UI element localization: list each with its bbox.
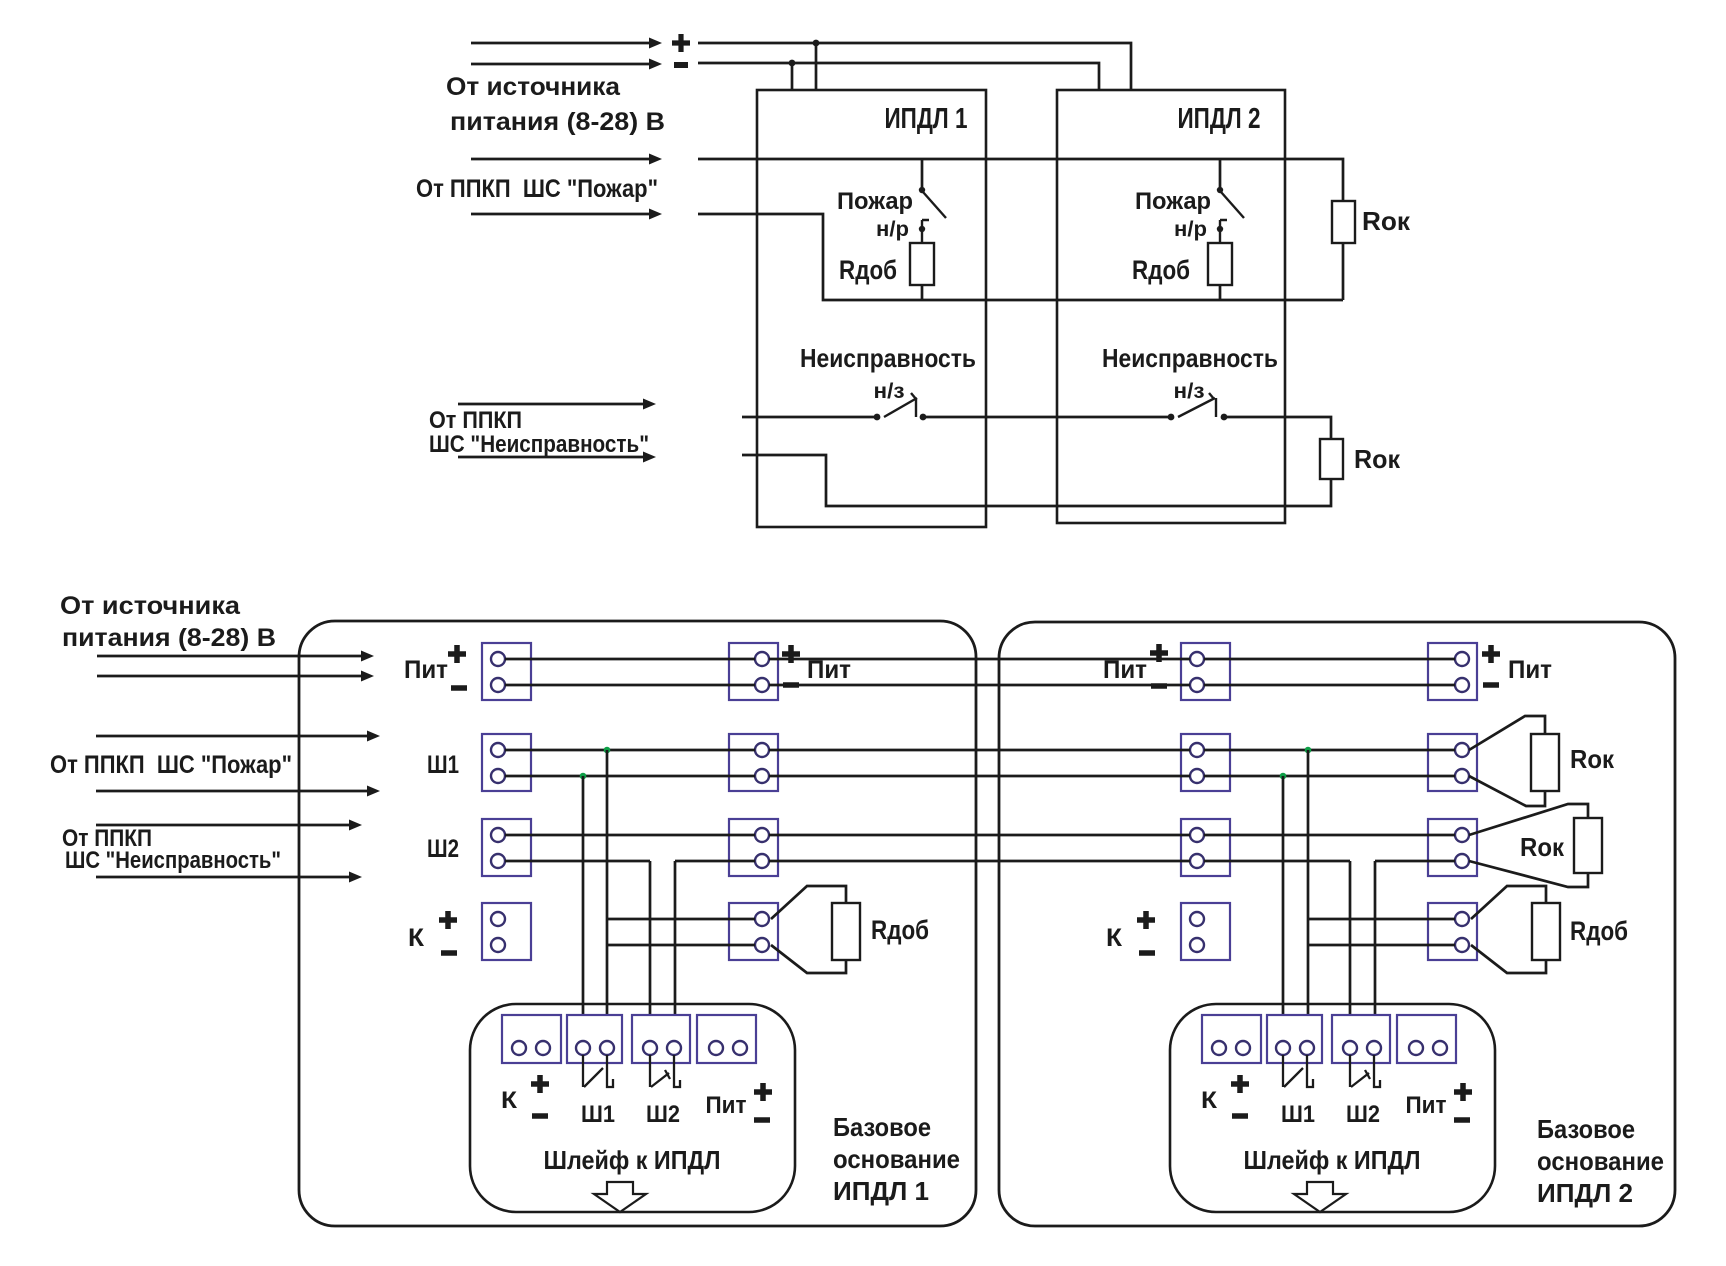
terminal Ш1 right (base2) (1428, 734, 1477, 791)
svg-text:н/р: н/р (1174, 218, 1207, 241)
label: - (base2 Пит right) (1483, 682, 1499, 688)
svg-text:К: К (1201, 1087, 1217, 1114)
svg-text:К: К (501, 1087, 517, 1114)
wire: fault return bus (742, 455, 1331, 506)
resistor Rдоб (ИПДЛ1) (910, 243, 934, 285)
label: + (power polarity) (672, 34, 690, 52)
wire: Ш2 bottom bus base2 (from drop) (1375, 860, 1455, 863)
node: Ш1 top junction (base1) (604, 747, 611, 754)
switch н/з (ИПДЛ2): fixed contact bar (1215, 398, 1217, 417)
terminal К (base2) (1181, 903, 1230, 960)
label: - (connector base1 К) (532, 1113, 548, 1119)
svg-text:От источника: От источника (446, 73, 621, 101)
node: +supply junction to ИПДЛ1 (813, 40, 820, 47)
wire: Пит- bus base2 (1204, 684, 1455, 687)
svg-text:От источника: От источника (60, 592, 241, 620)
svg-text:От ППКП ШС "Пожар": От ППКП ШС "Пожар" (416, 175, 658, 203)
resistor Rдоб (ИПДЛ2) (1208, 243, 1232, 285)
svg-text:н/з: н/з (1174, 380, 1205, 403)
wire: Пит+ bus base1 (505, 658, 755, 661)
switch н/з (ИПДЛ1): fixed contact bar (915, 398, 917, 417)
terminal Ш2 right (base2) (1428, 819, 1477, 876)
svg-text:К: К (1106, 924, 1123, 952)
terminal Ш1 left (base2) (1181, 734, 1230, 791)
node: Ш1 bottom junction (base2) (1280, 773, 1287, 780)
switch н/з (ИПДЛ1): right contact dot (920, 414, 927, 421)
resistor Rок (fire loop, right) (1332, 201, 1355, 243)
switch Пожар н/р (ИПДЛ1): stub (921, 159, 924, 187)
wire: Rок top lead (base2 Ш2) (1469, 804, 1588, 835)
switch Пожар н/р (ИПДЛ1): blade (923, 192, 946, 218)
switch Пожар н/р (ИПДЛ1): bottom contact dot (919, 226, 925, 232)
wire: Ш2 top bus base1→base2 (769, 834, 1190, 837)
wire: Ш2 input arrow (top) (96, 824, 352, 827)
switch н/з (ИПДЛ1): blade with fork (884, 393, 917, 417)
svg-text:Пит: Пит (1406, 1092, 1447, 1119)
svg-text:Rдоб: Rдоб (1570, 916, 1628, 946)
wire: Пит+ input arrow (97, 655, 364, 658)
wire: Rдоб bottom lead (ИПДЛ2) (1219, 285, 1222, 300)
svg-text:н/з: н/з (874, 380, 905, 403)
resistor Rок (base2 Ш2) (1574, 818, 1602, 873)
svg-text:Пожар: Пожар (1135, 188, 1211, 215)
node: Ш1 bottom junction (base1) (580, 773, 587, 780)
wire: Rдоб bottom lead (base1) (771, 945, 846, 973)
terminal К (connector base2) (1202, 1015, 1261, 1063)
wire: +supply bus to ИПДЛ2 (698, 43, 1131, 90)
svg-text:Rок: Rок (1570, 744, 1615, 774)
svg-text:К: К (408, 924, 425, 952)
switch н/з (ИПДЛ2): left contact dot (1168, 414, 1175, 421)
svg-text:Шлейф к ИПДЛ: Шлейф к ИПДЛ (1244, 1145, 1421, 1175)
label: - (connector base2 К) (1232, 1113, 1248, 1119)
svg-text:питания (8-28) В: питания (8-28) В (450, 108, 665, 136)
terminal Ш2 (connector base1) (632, 1015, 690, 1063)
label: + (base1 Пит left) (448, 645, 466, 663)
svg-text:Rок: Rок (1354, 444, 1401, 474)
wire: Ш1 bottom bus base2 (1204, 775, 1455, 778)
arrow: шлейф down (base2) (1294, 1182, 1346, 1212)
wire: Ш2 drop left (base1) (649, 861, 652, 1041)
terminal К (base1) (482, 903, 531, 960)
wire: power - input arrow (471, 63, 652, 66)
wire: Ш2 top bus base2 (1204, 834, 1455, 837)
svg-text:Пит: Пит (706, 1092, 747, 1119)
terminal Пит (connector base1) (697, 1015, 756, 1063)
terminal Пит right (base2) (1428, 643, 1477, 700)
wire: fault bus right segment to Rок (1224, 417, 1331, 439)
wire: branch to Rдоб terminal top (base1) (607, 918, 755, 921)
svg-text:ШС "Неисправность": ШС "Неисправность" (65, 847, 281, 874)
svg-text:Пит: Пит (404, 656, 448, 684)
switch Пожар н/р (ИПДЛ2): bottom contact hook (1220, 220, 1227, 243)
svg-text:Пожар: Пожар (837, 188, 913, 215)
switch Пожар н/р (ИПДЛ2): top contact dot (1217, 187, 1223, 193)
label: + (connector base2 Пит) (1454, 1083, 1472, 1101)
svg-text:Rдоб: Rдоб (1132, 255, 1190, 285)
switch Пожар н/р (ИПДЛ1): top contact dot (919, 187, 925, 193)
wire: Rок bottom lead (1342, 243, 1345, 300)
label: + (base1 К) (439, 911, 457, 929)
wire: Ш2 drop right (base2) (1374, 861, 1377, 1041)
terminal Ш1 (connector base2) (1267, 1015, 1322, 1063)
terminal Ш2 (connector base2) (1332, 1015, 1390, 1063)
node: -supply junction to ИПДЛ1 (789, 60, 796, 67)
wire: Ш1- drop to detector connector (base1) (582, 776, 585, 1041)
svg-text:основание: основание (1537, 1146, 1664, 1176)
label: + (base1 Пит right) (782, 645, 800, 663)
wire: branch to Rдоб terminal bottom (base2) (1308, 944, 1455, 947)
terminal Rдоб (base2 right) (1428, 903, 1477, 960)
wire: Ш1 top bus base2 (1204, 749, 1455, 752)
svg-text:Пит: Пит (1508, 656, 1552, 684)
wire: power + input arrow (471, 42, 652, 45)
terminal Ш1 left (base1) (482, 734, 531, 791)
label: + (base2 Пит left) (1150, 644, 1168, 662)
terminal Ш1 (connector base1) (567, 1015, 622, 1063)
svg-text:Rдоб: Rдоб (839, 255, 897, 285)
resistor Rдоб (base1) (832, 903, 860, 960)
wire: Ш2 top bus base1 (505, 834, 755, 837)
label: - (base1 К) (441, 950, 457, 956)
terminal Пит left (base1) (482, 643, 531, 700)
wire: Rок bottom lead (base2 Ш2) (1469, 861, 1588, 887)
terminal Пит (connector base2) (1397, 1015, 1456, 1063)
contact symbol Ш2 (base2) (1350, 1055, 1380, 1087)
label: + (base2 Пит right) (1482, 645, 1500, 663)
svg-text:основание: основание (833, 1144, 960, 1174)
block: базовое основание ИПДЛ 2 outline (999, 622, 1675, 1226)
terminal К (connector base1) (502, 1015, 561, 1063)
terminal Ш2 left (base1) (482, 819, 531, 876)
resistor Rок (fault loop, right) (1320, 439, 1343, 479)
wire: Ш1+ drop to detector connector (base2) (1307, 750, 1310, 1041)
label: - (connector base1 Пит) (754, 1117, 770, 1123)
svg-text:Rок: Rок (1362, 206, 1411, 236)
label: - (base1 Пит left) (451, 685, 467, 691)
terminal Пит right (base1) (729, 643, 778, 700)
terminal Пит left (base2) (1181, 643, 1230, 700)
svg-text:питания (8-28) В: питания (8-28) В (62, 624, 276, 652)
wire: Ш2 input arrow (bottom) (96, 876, 352, 879)
switch Пожар н/р (ИПДЛ2): stub (1219, 159, 1222, 187)
switch Пожар н/р (ИПДЛ2): bottom contact dot (1217, 226, 1223, 232)
wire: Rдоб top lead (base2) (1471, 886, 1546, 919)
wire: Ш1+ drop to detector connector (base1) (606, 750, 609, 1041)
wire: ШС Неисправность input arrow (bottom) (458, 456, 646, 459)
switch Пожар н/р (ИПДЛ1): bottom contact hook (922, 220, 929, 243)
wire: Rдоб bottom lead (ИПДЛ1) (921, 285, 924, 300)
switch н/з (ИПДЛ2): blade with fork (1178, 393, 1215, 417)
wire: -supply drop into ИПДЛ1 (791, 63, 794, 90)
block: базовое основание ИПДЛ 1 outline (299, 621, 976, 1226)
wire: fault bus left segment (742, 416, 878, 419)
wire: Ш1- drop to detector connector (base2) (1282, 776, 1285, 1041)
block: detector connector outline (base2) (1170, 1004, 1495, 1212)
label: - (base1 Пит right) (783, 682, 799, 688)
wire: Ш2 drop left (base2) (1349, 861, 1352, 1041)
svg-text:ИПДЛ 2: ИПДЛ 2 (1537, 1178, 1633, 1208)
wire: Ш1 input arrow (top) (96, 735, 370, 738)
wire: Ш2 bottom bus base2 (to drop) (1204, 860, 1350, 863)
svg-text:Шлейф к ИПДЛ: Шлейф к ИПДЛ (544, 1145, 721, 1175)
svg-text:От ППКП ШС "Пожар": От ППКП ШС "Пожар" (50, 751, 292, 779)
wire: Пит+ bus base1→base2 (769, 658, 1190, 661)
wire: Ш2 bottom bus base1 (from drop) (675, 860, 755, 863)
wire: +supply drop into ИПДЛ1 (815, 43, 818, 90)
svg-text:От ППКП: От ППКП (429, 407, 522, 434)
wire: Rок bottom lead (base2 Ш1) (1469, 776, 1545, 806)
wire: Rдоб bottom lead (base2) (1471, 945, 1546, 973)
node: Ш1 top junction (base2) (1305, 747, 1312, 754)
svg-text:Rдоб: Rдоб (871, 915, 929, 945)
svg-text:Ш2: Ш2 (427, 835, 459, 863)
wire: Пит- bus base1→base2 (769, 684, 1190, 687)
wire: Пит- input arrow (97, 675, 364, 678)
svg-text:Ш1: Ш1 (427, 751, 459, 779)
wire: Пит- bus base1 (505, 684, 755, 687)
svg-text:Базовое: Базовое (833, 1112, 931, 1142)
wire: Ш2 bottom bus base1→base2 (769, 860, 1190, 863)
wire: Rдоб top lead (base1) (771, 886, 846, 919)
contact symbol Ш1 (base1) (583, 1055, 613, 1087)
terminal Ш1 right (base1) (729, 734, 778, 791)
label: + (base2 К) (1137, 911, 1155, 929)
svg-text:Ш1: Ш1 (581, 1101, 615, 1128)
svg-text:Rок: Rок (1520, 832, 1565, 862)
svg-text:Базовое: Базовое (1537, 1114, 1635, 1144)
svg-text:Ш1: Ш1 (1281, 1101, 1315, 1128)
wire: Ш1 bottom bus base1→base2 (769, 775, 1190, 778)
terminal Rдоб (base1 right) (729, 903, 778, 960)
switch Пожар н/р (ИПДЛ2): blade (1221, 192, 1244, 218)
wire: branch to Rдоб terminal bottom (base1) (607, 944, 755, 947)
wire: fire loop return bus (lower) (698, 214, 1343, 300)
svg-text:Неисправность: Неисправность (800, 343, 976, 373)
wire: Ш1 input arrow (bottom) (96, 790, 370, 793)
arrow: шлейф down (base1) (594, 1182, 646, 1212)
contact symbol Ш1 (base2) (1283, 1055, 1313, 1087)
label: - (power polarity) (674, 62, 688, 68)
wire: Ш2 bottom bus base1 (to drop) (505, 860, 650, 863)
svg-text:Неисправность: Неисправность (1102, 343, 1278, 373)
svg-text:ИПДЛ 1: ИПДЛ 1 (833, 1176, 929, 1206)
contact symbol Ш2 (base1) (650, 1055, 680, 1087)
wire: branch to Rдоб terminal top (base2) (1308, 918, 1455, 921)
svg-text:Ш2: Ш2 (646, 1101, 680, 1128)
wire: ШС Пожар input arrow (bottom) (471, 213, 652, 216)
label: + (connector base2 К) (1231, 1075, 1249, 1093)
svg-text:Ш2: Ш2 (1346, 1101, 1380, 1128)
block: detector connector outline (base1) (470, 1004, 795, 1212)
wire: Пит+ bus base2 (1204, 658, 1455, 661)
label: + (connector base1 Пит) (754, 1083, 772, 1101)
switch н/з (ИПДЛ2): right contact dot (1221, 414, 1228, 421)
svg-text:ИПДЛ 2: ИПДЛ 2 (1178, 103, 1261, 135)
label: - (base2 К) (1139, 950, 1155, 956)
wire: Ш2 drop right (base1) (674, 861, 677, 1041)
wire: -supply bus to ИПДЛ2 (698, 63, 1099, 90)
svg-text:н/р: н/р (876, 218, 909, 241)
label: + (connector base1 К) (531, 1075, 549, 1093)
wire: fault bus middle segment (923, 416, 1172, 419)
label: - (connector base2 Пит) (1454, 1117, 1470, 1123)
wire: Ш1 top bus base1→base2 (769, 749, 1190, 752)
wire: ШС Неисправность input arrow (top) (458, 403, 646, 406)
resistor Rдоб (base2) (1532, 903, 1560, 960)
wire: fire loop bus through both ИПДЛ (698, 159, 1343, 201)
wire: Ш1 top bus base1 (505, 749, 755, 752)
terminal Ш2 left (base2) (1181, 819, 1230, 876)
svg-text:ШС "Неисправность": ШС "Неисправность" (429, 431, 649, 458)
wire: ШС Пожар input arrow (top) (471, 158, 652, 161)
terminal Ш2 right (base1) (729, 819, 778, 876)
block: ИПДЛ 2 outline (1057, 90, 1285, 523)
wire: Rок top lead (base2 Ш1) (1469, 716, 1545, 750)
resistor Rок (base2 Ш1) (1531, 734, 1559, 791)
svg-text:ИПДЛ 1: ИПДЛ 1 (885, 103, 968, 135)
label: - (base2 Пит left) (1151, 683, 1167, 689)
block: ИПДЛ 1 outline (757, 90, 986, 527)
switch н/з (ИПДЛ1): left contact dot (874, 414, 881, 421)
wire: Ш1 bottom bus base1 (505, 775, 755, 778)
